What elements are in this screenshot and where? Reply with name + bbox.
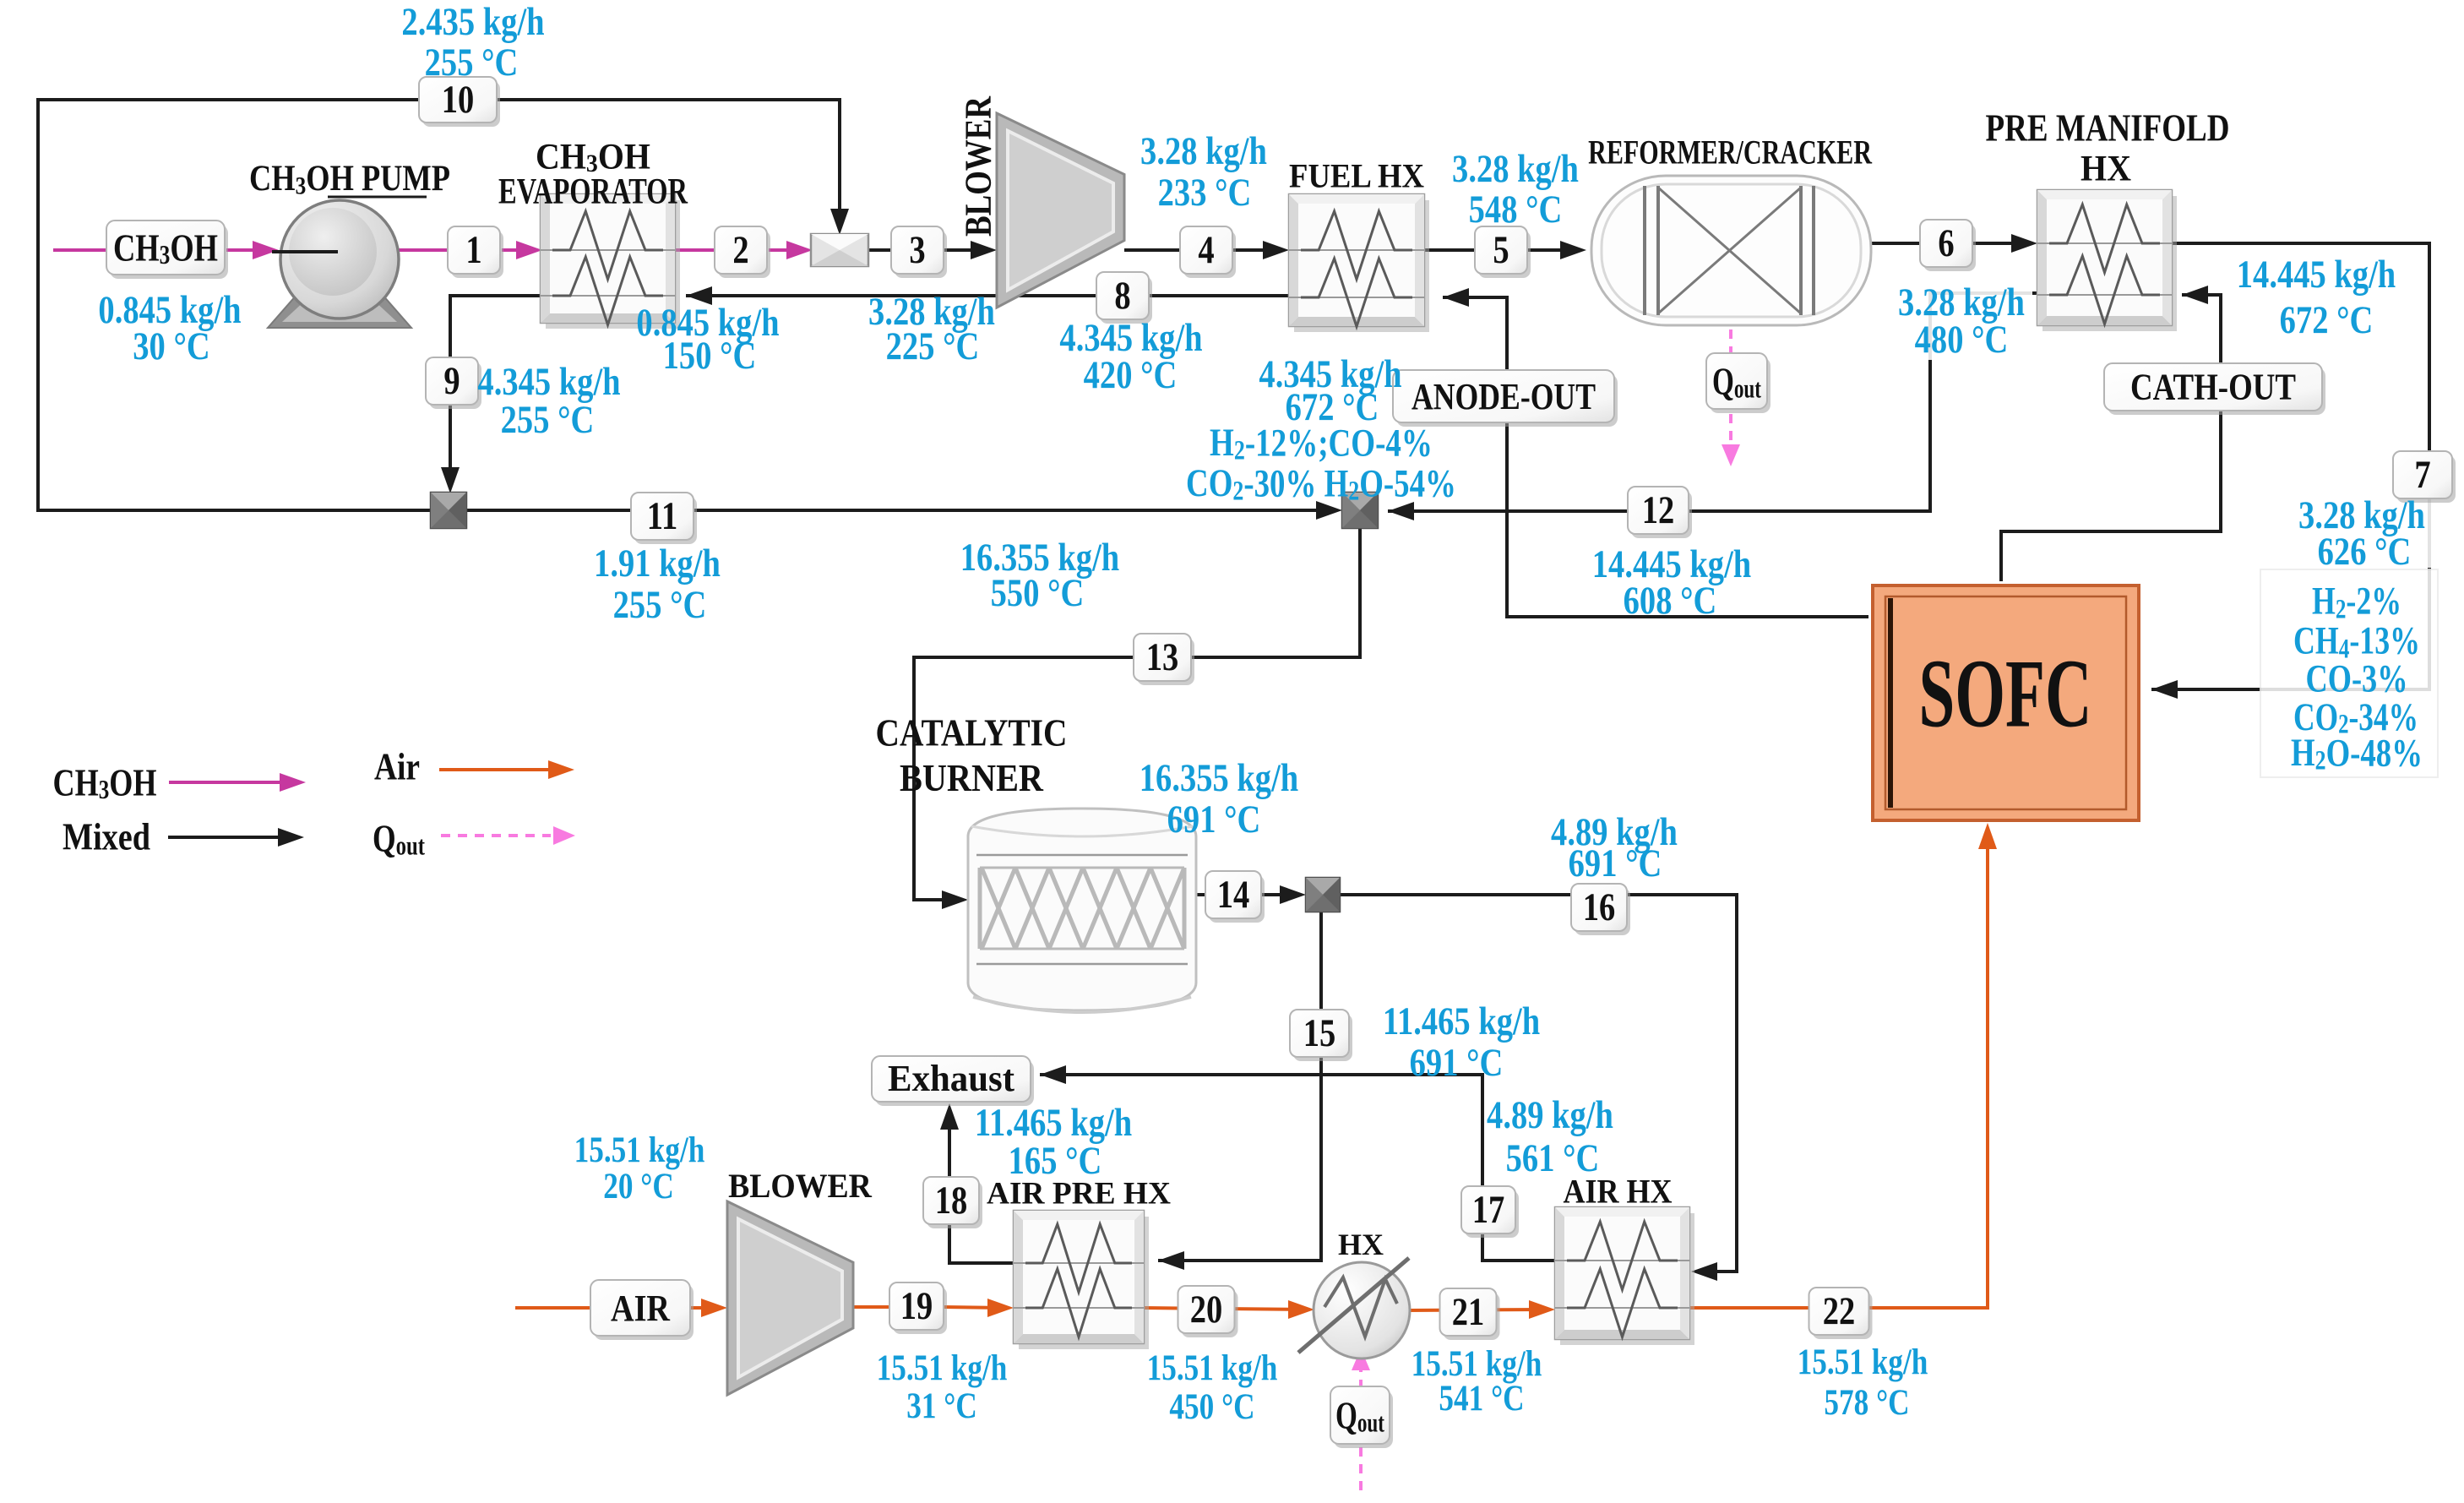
svg-text:578 °C: 578 °C <box>1824 1382 1909 1423</box>
svg-text:550 °C: 550 °C <box>991 571 1085 614</box>
svg-text:BURNER: BURNER <box>900 756 1044 799</box>
svg-text:CO2-30% H2O-54%: CO2-30% H2O-54% <box>1186 461 1456 506</box>
svg-text:17: 17 <box>1472 1188 1505 1231</box>
svg-text:11.465 kg/h: 11.465 kg/h <box>1383 999 1540 1043</box>
svg-text:H2O-48%: H2O-48% <box>2291 731 2423 776</box>
svg-text:HX: HX <box>1338 1228 1384 1261</box>
svg-text:7: 7 <box>2414 453 2430 496</box>
svg-text:Air: Air <box>374 746 420 788</box>
svg-text:14: 14 <box>1217 873 1250 916</box>
svg-text:1: 1 <box>465 228 481 271</box>
svg-text:4.89 kg/h: 4.89 kg/h <box>1487 1093 1613 1136</box>
svg-text:8: 8 <box>1114 274 1130 317</box>
svg-text:4: 4 <box>1198 228 1214 271</box>
svg-text:20 °C: 20 °C <box>603 1166 674 1206</box>
svg-text:15.51 kg/h: 15.51 kg/h <box>574 1130 705 1170</box>
svg-text:BLOWER: BLOWER <box>728 1168 873 1205</box>
svg-text:150 °C: 150 °C <box>663 334 757 377</box>
svg-text:CATH-OUT: CATH-OUT <box>2130 367 2296 408</box>
svg-text:AIR: AIR <box>611 1287 671 1328</box>
svg-text:REFORMER/CRACKER: REFORMER/CRACKER <box>1588 133 1872 171</box>
svg-text:548 °C: 548 °C <box>1469 188 1563 231</box>
svg-text:6: 6 <box>1938 221 1954 264</box>
svg-text:225 °C: 225 °C <box>886 324 980 368</box>
svg-text:561 °C: 561 °C <box>1506 1136 1600 1179</box>
svg-text:626 °C: 626 °C <box>2318 530 2412 573</box>
svg-text:CH3OH PUMP: CH3OH PUMP <box>249 158 450 199</box>
svg-text:11: 11 <box>647 494 677 537</box>
svg-text:19: 19 <box>900 1284 933 1327</box>
svg-text:541 °C: 541 °C <box>1439 1378 1524 1419</box>
svg-text:4.345 kg/h: 4.345 kg/h <box>477 360 620 403</box>
svg-text:18: 18 <box>935 1179 968 1222</box>
svg-text:3: 3 <box>909 228 925 271</box>
svg-text:233 °C: 233 °C <box>1158 171 1252 214</box>
svg-text:255 °C: 255 °C <box>613 583 707 626</box>
svg-text:11.465 kg/h: 11.465 kg/h <box>975 1101 1132 1144</box>
svg-text:608 °C: 608 °C <box>1624 579 1717 622</box>
svg-text:2: 2 <box>732 228 748 271</box>
svg-text:1.91 kg/h: 1.91 kg/h <box>594 542 721 585</box>
svg-text:30 °C: 30 °C <box>133 324 209 368</box>
svg-text:255 °C: 255 °C <box>501 398 595 441</box>
svg-text:15.51 kg/h: 15.51 kg/h <box>877 1348 1008 1388</box>
svg-text:31 °C: 31 °C <box>906 1386 977 1426</box>
svg-text:9: 9 <box>443 359 460 402</box>
svg-text:3.28 kg/h: 3.28 kg/h <box>1140 129 1267 172</box>
svg-text:691 °C: 691 °C <box>1569 841 1662 885</box>
svg-text:21: 21 <box>1452 1290 1485 1333</box>
svg-text:16: 16 <box>1583 885 1616 928</box>
svg-text:420 °C: 420 °C <box>1084 353 1178 396</box>
svg-text:13: 13 <box>1146 635 1179 678</box>
svg-text:255 °C: 255 °C <box>425 41 519 84</box>
svg-text:165 °C: 165 °C <box>1009 1139 1102 1182</box>
svg-text:FUEL HX: FUEL HX <box>1289 158 1424 195</box>
svg-text:14.445 kg/h: 14.445 kg/h <box>2237 253 2396 296</box>
svg-text:20: 20 <box>1190 1288 1223 1331</box>
svg-text:450 °C: 450 °C <box>1169 1386 1254 1427</box>
svg-text:15.51 kg/h: 15.51 kg/h <box>1147 1348 1278 1388</box>
svg-text:16.355 kg/h: 16.355 kg/h <box>1140 756 1299 799</box>
svg-text:10: 10 <box>442 78 475 121</box>
svg-text:H2-2%: H2-2% <box>2312 580 2401 624</box>
svg-text:HX: HX <box>2081 148 2131 188</box>
svg-text:691 °C: 691 °C <box>1167 798 1261 841</box>
svg-text:15.51 kg/h: 15.51 kg/h <box>1798 1342 1928 1382</box>
svg-text:22: 22 <box>1823 1289 1856 1332</box>
svg-text:ANODE-OUT: ANODE-OUT <box>1411 375 1596 417</box>
svg-text:5: 5 <box>1493 228 1509 271</box>
svg-text:2.435 kg/h: 2.435 kg/h <box>401 0 544 43</box>
svg-text:PRE MANIFOLD: PRE MANIFOLD <box>1986 107 2230 150</box>
svg-text:480 °C: 480 °C <box>1915 318 2009 361</box>
svg-text:BLOWER: BLOWER <box>958 95 999 237</box>
svg-text:15: 15 <box>1303 1011 1336 1054</box>
svg-text:EVAPORATOR: EVAPORATOR <box>498 172 688 211</box>
svg-text:691 °C: 691 °C <box>1410 1041 1504 1084</box>
svg-text:12: 12 <box>1642 488 1675 531</box>
svg-text:CATALYTIC: CATALYTIC <box>876 712 1068 754</box>
svg-text:3.28 kg/h: 3.28 kg/h <box>1452 147 1579 190</box>
svg-text:672 °C: 672 °C <box>2280 298 2374 341</box>
svg-text:Exhaust: Exhaust <box>888 1059 1014 1100</box>
svg-text:SOFC: SOFC <box>1919 640 2092 749</box>
svg-text:Mixed: Mixed <box>63 815 150 858</box>
